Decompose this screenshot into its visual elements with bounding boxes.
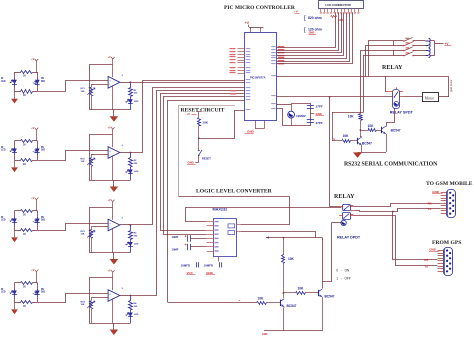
wire PIC OSC1 to crystal (277, 104, 292, 106)
resistor R1c 330 at U1 output (130, 82, 132, 87)
wire PIC OSC2 to crystal (277, 109, 292, 126)
wire preset RV2 to inverting input (91, 154, 108, 156)
svg-text:BC547: BC547 (391, 128, 401, 132)
svg-text:27PF: 27PF (316, 121, 323, 125)
wire Q4 emitter down (282, 307, 285, 309)
svg-text:10K: 10K (343, 134, 350, 138)
svg-text:TX: TX (424, 264, 428, 268)
svg-text:LED: LED (134, 101, 139, 103)
wire relay DPDT coil to transistor Q3 collector (332, 222, 341, 224)
svg-text:10K: 10K (81, 304, 85, 306)
svg-text:IR: IR (1, 78, 4, 80)
svg-text:LED: LED (134, 171, 139, 173)
wire op-amp U2 output to PIC RB1 (131, 81, 245, 153)
preset RV4 10K (91, 297, 93, 300)
op-amp U4 feedback loop wire (90, 278, 131, 324)
ground PIC VSS (255, 120, 257, 129)
svg-text:LED: LED (134, 314, 139, 316)
wire op-amp U3 output to PIC RB2 (131, 88, 245, 225)
svg-text:1K: 1K (23, 76, 26, 78)
svg-text:10MF: 10MF (172, 235, 179, 239)
svg-text:LED: LED (1, 292, 6, 294)
wire GPS RX line down (393, 212, 438, 260)
svg-text:10K: 10K (81, 234, 85, 236)
wire sensor S3 output to comparator (38, 224, 109, 231)
svg-text:1K: 1K (23, 144, 26, 146)
LED D2c indicator (130, 167, 132, 169)
photodiode D4b (37, 283, 39, 289)
svg-text:PH: PH (41, 147, 45, 149)
wire coil drive node with arrow (266, 236, 269, 238)
op-amp U3 feedback loop wire (90, 208, 131, 253)
svg-text:PIC16F877A: PIC16F877A (250, 76, 266, 80)
power +V sensor S1 (35, 59, 37, 61)
ground op-amp U3 (113, 253, 115, 259)
ground transistor drivers (353, 152, 362, 158)
power +V op-amp U4 (111, 270, 113, 272)
sensor bridge S4 bottom resistor R4b 1K (15, 302, 21, 304)
resistor R10 10K reset pull-up (198, 118, 201, 126)
wire Q1 emitter to ground (361, 145, 363, 152)
IR LED D3a (14, 211, 16, 217)
ground sensor S4 (14, 302, 16, 309)
transistor Q4 BC547 (280, 300, 282, 306)
preset RV1 10K (91, 84, 93, 87)
transistor Q1 BC547 (357, 138, 359, 144)
wire Q4 collector junction (283, 292, 285, 294)
svg-text:RS232 SERIAL COMMUNICATION: RS232 SERIAL COMMUNICATION (344, 162, 438, 168)
wire emitter ground rail (264, 330, 322, 332)
node op-amp U4 output (120, 295, 131, 297)
microcontroller U5 PIC16F877A body (245, 33, 277, 121)
wire feed to relay row 2 (366, 46, 394, 77)
svg-text:10K: 10K (298, 286, 305, 290)
svg-text:DIO: DIO (41, 150, 45, 152)
svg-text:RESET: RESET (202, 156, 211, 160)
wire relay DPDT to GSM TX (354, 209, 441, 212)
svg-text:RELAY: RELAY (334, 194, 355, 200)
svg-text:10K: 10K (368, 124, 375, 128)
svg-text:LCD CONNECTOR: LCD CONNECTOR (325, 3, 351, 7)
LCD connector pins (320, 9, 322, 13)
svg-text:GND: GND (262, 333, 268, 336)
wire sensor S2 output to comparator (38, 151, 109, 161)
svg-text:FROM GPS: FROM GPS (432, 240, 461, 246)
sensor bridge S3 top resistor R3a 1K (15, 210, 21, 212)
resistor R3c 330 at U3 output (130, 225, 132, 230)
relay K2 SPDT (393, 90, 400, 109)
node op-amp U1 output (120, 82, 131, 84)
IR LED D1a (14, 72, 16, 78)
power +V sensor S4 (35, 270, 37, 272)
wire driver branch to relay DPDT (330, 97, 340, 207)
ground op-amp U4 (113, 323, 115, 329)
svg-text:10MFD: 10MFD (204, 263, 213, 267)
connector J3 pins (438, 250, 444, 252)
svg-text:DIO: DIO (41, 292, 45, 294)
IR LED D4a (14, 283, 16, 289)
relay K1 switch contact 3 (393, 50, 403, 52)
wire preset RV3 to inverting input (91, 226, 108, 228)
wire sensor S4 output to comparator (38, 294, 109, 303)
svg-text:0 - ON: 0 - ON (336, 268, 350, 272)
svg-text:DIO: DIO (41, 220, 45, 222)
svg-text:+V: +V (31, 58, 34, 61)
svg-text:LOGIC LEVEL CONVERTER: LOGIC LEVEL CONVERTER (196, 189, 273, 195)
svg-text:IR: IR (1, 289, 4, 291)
power +V sensor S2 (35, 128, 37, 130)
ground op-amp U2 (113, 180, 115, 186)
wire preset RV4 to inverting input (91, 297, 108, 299)
wire op-amp U4 output to PIC RB3 (131, 91, 245, 296)
wire Q3 collector riser (322, 238, 324, 289)
wire Q2 emitter to ground (386, 134, 388, 152)
svg-text:IR: IR (1, 147, 4, 149)
svg-text:GND: GND (247, 130, 255, 134)
sensor bridge S4 top resistor R4a 1K (15, 282, 21, 284)
wire MAX232 pin top loop (186, 208, 207, 222)
svg-text:+V: +V (294, 10, 298, 14)
svg-text:MAX232: MAX232 (213, 208, 228, 212)
svg-text:LED: LED (1, 220, 6, 222)
relay K1 coil b (425, 48, 430, 57)
ground sensor S2 (14, 160, 16, 167)
svg-text:gear motor: gear motor (449, 79, 453, 92)
wire reset node (198, 126, 200, 138)
svg-text:1K: 1K (23, 306, 26, 308)
capacitor C5 27PF (307, 105, 314, 107)
wire logic level section loop to MAX232 T2OUT (179, 197, 290, 225)
wire base rail (332, 112, 363, 114)
wire PIC to relay SPDT supply loop (277, 76, 449, 78)
svg-text:10K: 10K (348, 115, 355, 119)
svg-text:IR: IR (1, 217, 4, 219)
svg-text:PH: PH (41, 78, 45, 80)
MAX232 left pins (207, 221, 214, 223)
svg-text:LED: LED (1, 150, 6, 152)
svg-text:+V: +V (108, 269, 111, 272)
wire Q2 collector to relay SPDT coil (387, 109, 395, 127)
svg-text:+V: +V (108, 56, 111, 59)
svg-text:DIO: DIO (41, 81, 45, 83)
ground sensor S3 (14, 230, 16, 237)
svg-text:820 ohm: 820 ohm (308, 16, 322, 20)
photodiode D3b (37, 211, 39, 217)
op-amp U1 (108, 77, 120, 89)
resistor R13 10K (360, 112, 362, 114)
svg-text:BC547: BC547 (287, 304, 297, 308)
transistor Q3 BC547 (318, 290, 320, 296)
svg-text:+V: +V (31, 197, 34, 200)
op-amp U4 (108, 290, 120, 302)
wire PIC RX to MAX232 R1OUT (164, 97, 245, 235)
transistor Q2 BC547 (376, 130, 382, 132)
svg-text:TO GSM MOBILE: TO GSM MOBILE (426, 181, 473, 187)
svg-text:27PF: 27PF (316, 105, 323, 109)
svg-text:1K: 1K (23, 95, 26, 97)
svg-text:10K: 10K (258, 296, 265, 300)
wire MAX232 V- to cap (218, 257, 220, 262)
wire reset node to PIC MCLR pin 1 (199, 111, 245, 139)
switch SW1 reset push button (198, 138, 200, 149)
ground sensor S1 (14, 92, 16, 99)
svg-text:10MFD: 10MFD (181, 263, 190, 267)
preset RV2 10K (91, 154, 93, 157)
wire driver to relay row 3 (361, 51, 394, 113)
MAX232 U6 body (214, 219, 237, 257)
svg-text:10K: 10K (81, 91, 85, 93)
power +V op-amp U2 (111, 127, 113, 129)
wire sensor S1 output to comparator (38, 81, 109, 92)
svg-text:BC547: BC547 (325, 294, 335, 298)
wire MAX232 T1OUT to relay DPDT (186, 207, 342, 209)
svg-text:GND: GND (429, 248, 437, 252)
svg-text:1K: 1K (23, 164, 26, 166)
resistor R2c 330 at U2 output (130, 153, 132, 158)
svg-text:10K: 10K (288, 257, 295, 261)
svg-text:1K: 1K (23, 286, 26, 288)
svg-text:Motor: Motor (425, 96, 435, 100)
sensor bridge S2 top resistor R2a 1K (15, 140, 21, 142)
svg-text:GND: GND (187, 161, 193, 165)
photodiode D1b (37, 72, 39, 78)
wire driver to relay row 4 (364, 56, 394, 113)
ground reset switch (198, 156, 200, 163)
PIC left pin name labels RB0-RB7 (246, 79, 251, 80)
svg-text:+V: +V (187, 112, 191, 116)
reset circuit section border (178, 106, 180, 196)
wire base line from logic section (168, 302, 257, 304)
svg-text:**: ** (239, 300, 241, 303)
svg-text:1K: 1K (23, 234, 26, 236)
relay K1 contact bank bracket (393, 41, 395, 46)
svg-text:+V: +V (31, 127, 34, 130)
ground op-amp U1 (113, 110, 115, 116)
PIC pins RA0-RA5 stubs (238, 48, 245, 50)
svg-text:GND: GND (309, 31, 315, 34)
svg-text:RX: RX (424, 258, 428, 262)
svg-text:PH: PH (41, 289, 45, 291)
svg-text:10K: 10K (81, 161, 85, 163)
resistor R14 10K to Q2 base (360, 130, 368, 132)
ground crystal caps (310, 113, 314, 115)
crystal X1 12MHZ (291, 103, 293, 125)
capacitor C6 27PF (307, 119, 314, 121)
sensor bridge S2 bottom resistor R2b 1K (15, 160, 21, 162)
IR LED D2a (14, 141, 16, 147)
svg-text:-: - (109, 153, 110, 157)
power +V sensor S3 (35, 198, 37, 200)
svg-text:TX: TX (428, 207, 432, 211)
wire preset RV1 to inverting input (91, 84, 108, 86)
wire PIC to logic level converter section (168, 101, 245, 303)
svg-text:+V: +V (108, 199, 111, 202)
op-amp U2 (108, 147, 120, 159)
node op-amp U2 output (120, 152, 131, 154)
connector J2 pins (441, 192, 447, 194)
svg-text:+V: +V (31, 269, 34, 272)
svg-text:1 - OFF: 1 - OFF (336, 276, 351, 280)
wire PIC to transistor drivers (277, 96, 393, 98)
sensor bridge S3 bottom resistor R3b 1K (15, 230, 21, 232)
wire feed to relay row 1 (369, 41, 394, 77)
wire Q1 collector (360, 136, 361, 138)
op-amp U2 feedback loop wire (90, 135, 131, 181)
sensor bridge S1 bottom resistor R1b 1K (15, 91, 21, 93)
wire Q3 emitter down (322, 297, 324, 331)
PIC pins RE0-RE2 stubs (238, 67, 245, 69)
sensor bridge S1 top resistor R1a 1K (15, 72, 21, 74)
preset RV3 10K (91, 227, 93, 230)
svg-text:+V: +V (108, 126, 111, 129)
node op-amp U3 output (120, 224, 131, 226)
op-amp U1 feedback loop wire (90, 65, 131, 110)
svg-text:LED: LED (134, 244, 139, 246)
op-amp U3 (108, 219, 120, 231)
svg-text:-: - (109, 225, 110, 229)
relay K1 switch contact 4 (393, 55, 403, 57)
svg-text:RELAY SPDT: RELAY SPDT (390, 110, 414, 114)
svg-text:-: - (109, 83, 110, 87)
wire PIC TX to MAX232 T1IN (161, 94, 245, 231)
svg-text:PH: PH (41, 217, 45, 219)
svg-text:RX: RX (428, 201, 432, 205)
svg-text:PIC MICRO CONTROLLER: PIC MICRO CONTROLLER (224, 5, 296, 11)
label red pin numbers on PIC left rows (230, 90, 236, 91)
svg-text:GND: GND (206, 271, 214, 275)
photodiode D2b (37, 141, 39, 147)
relay K1 switch contact 1 (393, 40, 403, 42)
svg-text:{: { (304, 27, 306, 33)
connector J1 LCD CONNECTOR (319, 1, 364, 9)
relay K3 DPDT pole 1 (343, 205, 351, 211)
relay K3 DPDT pole 2 (343, 213, 351, 220)
relay K3 DPDT coil (341, 220, 346, 225)
LED D4c indicator (130, 310, 132, 312)
wire relay to motor (403, 96, 422, 98)
relay K1 common wire to +V (430, 40, 435, 42)
resistor R4c 330 at U4 output (130, 296, 132, 301)
resistor R17 10K at Q4 base (257, 302, 267, 305)
LED D3c indicator (130, 239, 132, 241)
svg-text:1K: 1K (23, 214, 26, 216)
relay K1 coil a (425, 38, 430, 47)
power +V op-amp U1 (111, 57, 113, 59)
resistor R18 10K to Q3 base (283, 292, 295, 294)
MAX232 right pins (236, 224, 240, 226)
LED D1c indicator (130, 97, 132, 99)
wires LCD data bus to PIC (277, 13, 336, 48)
resistor R16 10K (283, 238, 285, 255)
wire relay DPDT pole2 common (353, 215, 395, 217)
svg-text:RELAY: RELAY (382, 65, 403, 71)
relay K1 switch contact 2 (393, 45, 403, 47)
connector J3 DB9 FROM GPS (444, 248, 453, 276)
connector J2 DB9 TO GSM MOBILE (447, 190, 456, 218)
svg-text:BC547: BC547 (362, 142, 372, 146)
svg-text:-: - (109, 296, 110, 300)
svg-text:GND: GND (316, 112, 322, 116)
power +V op-amp U3 (111, 200, 113, 202)
svg-text:LED: LED (1, 81, 6, 83)
wire op-amp U1 output to PIC RB0 (130, 82, 244, 84)
svg-text:10K: 10K (202, 120, 208, 124)
wire GPS TX line down (396, 216, 438, 266)
svg-text:12MHZ: 12MHZ (296, 114, 306, 118)
motor M1 (423, 93, 439, 102)
svg-text:VCC: VCC (187, 271, 194, 275)
svg-text:{: { (304, 15, 306, 21)
svg-text:10MF: 10MF (172, 247, 179, 251)
svg-text:RELAY DPDT: RELAY DPDT (337, 235, 361, 239)
wire MAX232 R2IN to coil node (241, 232, 316, 238)
wire motor to +V loop (438, 96, 449, 98)
PIC right pin name labels RC/RD (271, 46, 276, 47)
wire relay DPDT to GSM RX (354, 204, 441, 207)
